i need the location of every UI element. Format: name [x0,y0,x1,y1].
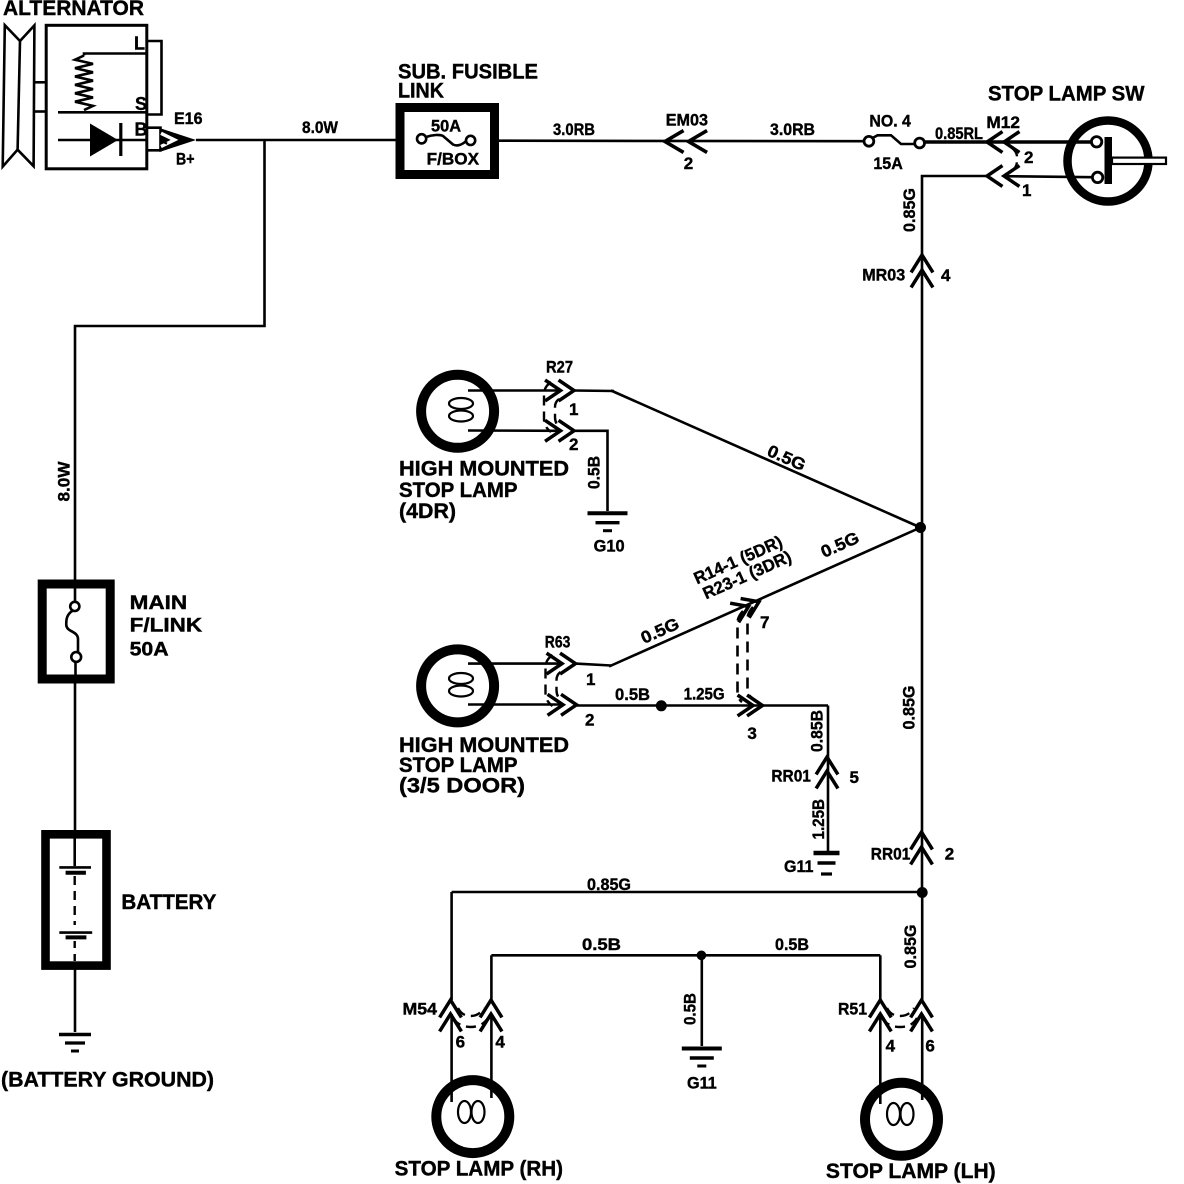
svg-text:RR01: RR01 [871,845,911,864]
svg-text:R51: R51 [838,1000,867,1019]
svg-text:RR01: RR01 [771,767,811,786]
svg-text:2: 2 [585,711,594,730]
svg-text:1: 1 [1022,181,1031,200]
svg-text:4: 4 [886,1037,896,1056]
svg-text:2: 2 [684,154,693,173]
svg-text:(4DR): (4DR) [399,500,456,523]
svg-text:NO. 4: NO. 4 [869,111,911,130]
svg-text:ALTERNATOR: ALTERNATOR [3,0,144,20]
svg-text:7: 7 [760,613,769,632]
svg-text:(BATTERY GROUND): (BATTERY GROUND) [1,1069,214,1092]
svg-text:0.85G: 0.85G [587,875,631,894]
svg-text:2: 2 [1024,148,1033,167]
svg-text:L: L [134,34,145,54]
svg-text:MR03: MR03 [862,266,905,285]
svg-text:0.5B: 0.5B [615,685,650,704]
svg-text:2: 2 [945,845,954,864]
svg-text:STOP LAMP (RH): STOP LAMP (RH) [395,1158,563,1181]
svg-text:S: S [135,94,147,114]
svg-text:1: 1 [569,400,578,419]
svg-text:STOP LAMP (LH): STOP LAMP (LH) [826,1160,996,1183]
svg-text:2: 2 [569,435,578,454]
svg-text:1.25B: 1.25B [809,799,828,840]
svg-text:0.85G: 0.85G [900,686,919,730]
svg-text:6: 6 [925,1037,934,1056]
svg-text:6: 6 [456,1033,465,1052]
svg-text:3.0RB: 3.0RB [770,120,815,139]
svg-text:0.85B: 0.85B [808,710,827,752]
svg-text:R27: R27 [546,358,573,377]
svg-text:B: B [135,120,148,140]
svg-text:G11: G11 [784,857,814,876]
svg-text:E16: E16 [174,109,203,128]
svg-text:(3/5 DOOR): (3/5 DOOR) [399,774,525,797]
svg-text:50A: 50A [431,117,461,136]
svg-text:STOP LAMP SW: STOP LAMP SW [988,82,1145,105]
svg-text:0.5B: 0.5B [775,935,809,954]
svg-text:8.0W: 8.0W [55,461,74,502]
svg-text:1: 1 [586,670,595,689]
svg-text:0.85RL: 0.85RL [935,124,983,143]
svg-text:3: 3 [747,724,756,743]
svg-text:4: 4 [941,266,951,285]
svg-text:G10: G10 [594,537,625,556]
svg-text:0.5B: 0.5B [582,935,621,954]
svg-text:50A: 50A [130,640,169,661]
svg-text:M54: M54 [403,1000,438,1019]
svg-text:0.85G: 0.85G [900,188,919,232]
svg-text:8.0W: 8.0W [302,118,339,137]
svg-text:5: 5 [850,768,859,787]
svg-text:0.5B: 0.5B [681,993,700,1025]
svg-text:R63: R63 [545,633,571,652]
svg-text:HIGH MOUNTED: HIGH MOUNTED [399,457,569,480]
svg-text:M12: M12 [986,113,1020,132]
svg-text:0.85G: 0.85G [901,925,920,969]
svg-text:BATTERY: BATTERY [121,891,216,914]
svg-text:F/BOX: F/BOX [427,150,480,169]
svg-text:LINK: LINK [398,80,444,103]
svg-text:STOP LAMP: STOP LAMP [399,479,518,502]
svg-text:1.25G: 1.25G [684,685,725,704]
svg-text:0.5B: 0.5B [585,456,604,489]
svg-text:F/LINK: F/LINK [130,616,203,637]
svg-text:EM03: EM03 [666,110,708,129]
svg-text:15A: 15A [873,154,902,173]
svg-text:3.0RB: 3.0RB [553,120,595,139]
svg-text:G11: G11 [687,1074,717,1093]
svg-text:4: 4 [495,1033,505,1052]
svg-text:B+: B+ [176,150,195,169]
svg-text:MAIN: MAIN [130,593,188,614]
